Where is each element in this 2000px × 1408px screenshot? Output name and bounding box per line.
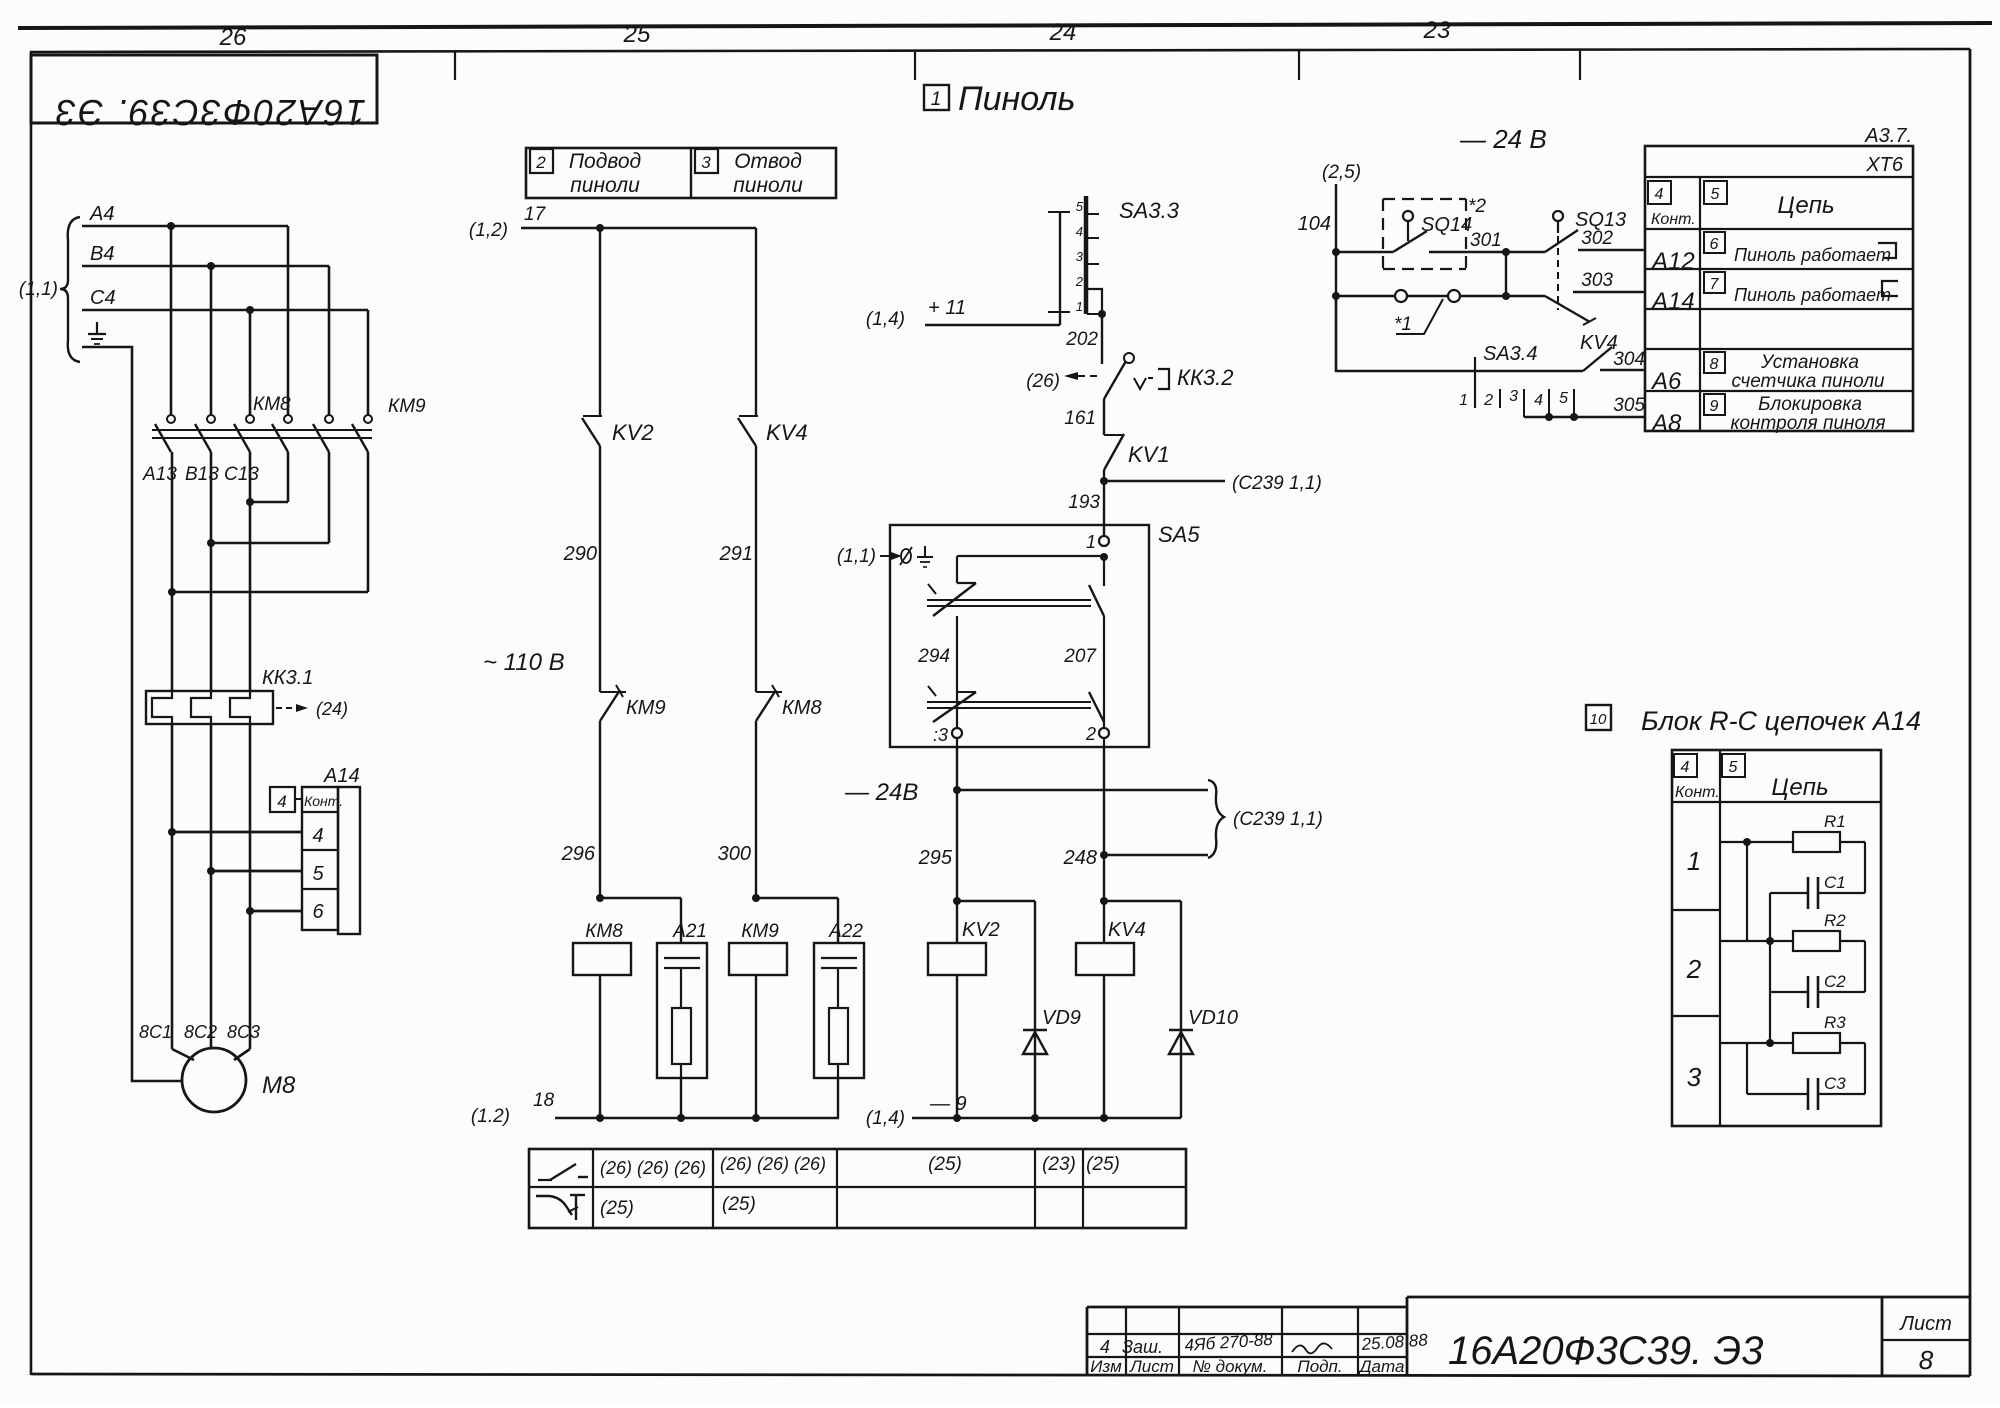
svg-text:2: 2 xyxy=(1075,274,1084,289)
svg-text:193: 193 xyxy=(1068,492,1100,513)
svg-text:(1.2): (1.2) xyxy=(471,1106,510,1127)
svg-text:24: 24 xyxy=(1049,19,1077,46)
svg-text:В4: В4 xyxy=(90,243,114,265)
svg-text:Блок R-С цепочек А14: Блок R-С цепочек А14 xyxy=(1641,706,1921,736)
svg-text:~ 110 В: ~ 110 В xyxy=(483,649,565,676)
svg-text:SА3.4: SА3.4 xyxy=(1483,343,1537,365)
svg-text:23: 23 xyxy=(1423,17,1451,44)
svg-text:4: 4 xyxy=(1534,392,1543,409)
svg-text:(26) (26) (26): (26) (26) (26) xyxy=(600,1158,706,1178)
svg-text:300: 300 xyxy=(718,843,751,865)
svg-text:КМ8: КМ8 xyxy=(253,394,291,415)
svg-text:КМ9: КМ9 xyxy=(626,697,666,719)
svg-text::3: :3 xyxy=(933,725,948,745)
svg-text:*1: *1 xyxy=(1394,314,1412,335)
svg-text:С4: С4 xyxy=(90,287,116,309)
svg-text:8С2: 8С2 xyxy=(184,1022,217,1042)
svg-text:8: 8 xyxy=(1919,1345,1934,1375)
svg-text:4: 4 xyxy=(1655,186,1664,203)
svg-text:КМ9: КМ9 xyxy=(388,396,426,417)
svg-text:Цепь: Цепь xyxy=(1777,192,1834,219)
svg-text:207: 207 xyxy=(1063,646,1097,667)
svg-text:(1,2): (1,2) xyxy=(469,220,508,241)
svg-text:А12: А12 xyxy=(1650,248,1695,275)
svg-text:*2: *2 xyxy=(1468,196,1486,217)
svg-text:17: 17 xyxy=(524,204,547,225)
svg-text:4: 4 xyxy=(1100,1337,1110,1357)
svg-text:304: 304 xyxy=(1613,349,1645,370)
svg-text:Подвод: Подвод xyxy=(569,150,641,173)
svg-text:КК3.1: КК3.1 xyxy=(262,667,313,689)
svg-text:296: 296 xyxy=(561,843,596,865)
svg-text:Конт.: Конт. xyxy=(1651,211,1696,228)
svg-text:1: 1 xyxy=(1086,532,1096,552)
svg-text:(25): (25) xyxy=(600,1198,634,1219)
svg-text:2: 2 xyxy=(1686,954,1702,984)
svg-text:(26) (26) (26): (26) (26) (26) xyxy=(720,1154,826,1174)
svg-text:291: 291 xyxy=(719,543,753,565)
svg-text:А13: А13 xyxy=(142,464,177,485)
svg-text:(26): (26) xyxy=(1026,371,1060,392)
svg-text:ХТ6: ХТ6 xyxy=(1865,154,1904,176)
svg-text:1: 1 xyxy=(1687,846,1701,876)
svg-text:8С3: 8С3 xyxy=(227,1022,260,1042)
svg-text:1: 1 xyxy=(931,89,942,110)
svg-text:КК3.2: КК3.2 xyxy=(1177,365,1234,390)
svg-text:В13: В13 xyxy=(185,464,219,485)
svg-text:А22: А22 xyxy=(828,921,863,942)
svg-text:(1,4): (1,4) xyxy=(866,309,905,330)
svg-text:Заш.: Заш. xyxy=(1122,1337,1163,1357)
svg-text:R3: R3 xyxy=(1824,1013,1846,1032)
svg-text:№ докум.: № докум. xyxy=(1193,1357,1268,1376)
svg-text:10: 10 xyxy=(1590,711,1607,728)
svg-text:7: 7 xyxy=(1710,276,1720,293)
svg-text:(1,1): (1,1) xyxy=(837,546,876,567)
svg-text:Пиноль: Пиноль xyxy=(958,80,1075,118)
svg-text:— 24В: — 24В xyxy=(844,779,918,806)
svg-text:Цепь: Цепь xyxy=(1771,774,1828,801)
svg-text:Дата: Дата xyxy=(1358,1357,1405,1376)
svg-text:4: 4 xyxy=(312,825,323,847)
svg-text:счетчика пиноли: счетчика пиноли xyxy=(1731,371,1884,392)
svg-text:(1,1): (1,1) xyxy=(19,279,58,300)
svg-text:А8: А8 xyxy=(1650,410,1682,437)
svg-text:6: 6 xyxy=(1710,236,1719,253)
svg-text:VD9: VD9 xyxy=(1042,1007,1081,1029)
svg-text:А14: А14 xyxy=(323,765,360,787)
svg-text:(1,4): (1,4) xyxy=(866,1108,905,1129)
svg-text:16А20Ф3С39. Э3: 16А20Ф3С39. Э3 xyxy=(54,92,366,133)
svg-text:6: 6 xyxy=(312,901,324,923)
svg-text:3: 3 xyxy=(1076,249,1084,264)
svg-text:4: 4 xyxy=(1681,759,1690,776)
svg-text:VD10: VD10 xyxy=(1188,1007,1238,1029)
svg-text:С1: С1 xyxy=(1824,873,1846,892)
svg-text:5: 5 xyxy=(1559,390,1568,407)
svg-text:(С239 1,1): (С239 1,1) xyxy=(1232,473,1322,494)
svg-text:302: 302 xyxy=(1581,228,1613,249)
svg-text:2: 2 xyxy=(1483,392,1493,409)
svg-text:(25): (25) xyxy=(1086,1154,1120,1175)
svg-text:— 9: — 9 xyxy=(929,1093,967,1115)
svg-text:А14: А14 xyxy=(1650,288,1695,315)
svg-text:8С1: 8С1 xyxy=(139,1022,172,1042)
svg-text:5: 5 xyxy=(1711,186,1720,203)
svg-text:(2,5): (2,5) xyxy=(1322,162,1361,183)
svg-text:2: 2 xyxy=(1085,724,1096,744)
svg-text:(25): (25) xyxy=(722,1194,756,1215)
svg-text:А21: А21 xyxy=(672,921,707,942)
svg-text:KV4: KV4 xyxy=(766,420,808,445)
svg-text:26: 26 xyxy=(219,24,247,51)
svg-text:SА5: SА5 xyxy=(1158,522,1200,547)
svg-text:(25): (25) xyxy=(928,1154,962,1175)
svg-text:Пиноль работает: Пиноль работает xyxy=(1734,285,1891,305)
svg-text:KV4: KV4 xyxy=(1108,919,1146,941)
svg-text:KV2: KV2 xyxy=(612,420,654,445)
svg-text:пиноли: пиноли xyxy=(733,174,803,197)
svg-text:4: 4 xyxy=(277,792,286,811)
svg-text:Конт.: Конт. xyxy=(1675,784,1720,801)
svg-text:SQ14: SQ14 xyxy=(1421,214,1472,236)
svg-text:(23): (23) xyxy=(1042,1154,1076,1175)
svg-text:25: 25 xyxy=(623,21,651,48)
svg-text:Лист: Лист xyxy=(1898,1313,1952,1335)
svg-text:5: 5 xyxy=(1729,759,1738,776)
svg-text:КМ8: КМ8 xyxy=(782,697,822,719)
svg-text:248: 248 xyxy=(1063,847,1097,869)
svg-text:18: 18 xyxy=(533,1090,555,1111)
svg-text:R2: R2 xyxy=(1824,911,1846,930)
svg-text:(С239 1,1): (С239 1,1) xyxy=(1233,809,1323,830)
svg-text:С13: С13 xyxy=(224,464,259,485)
svg-text:KV4: KV4 xyxy=(1580,332,1618,354)
svg-text:295: 295 xyxy=(918,847,953,869)
svg-text:А4: А4 xyxy=(89,203,114,225)
svg-text:202: 202 xyxy=(1065,329,1098,350)
svg-text:SА3.3: SА3.3 xyxy=(1119,198,1180,223)
svg-text:3: 3 xyxy=(1687,1062,1702,1092)
svg-text:2: 2 xyxy=(535,153,546,172)
svg-text:КМ8: КМ8 xyxy=(585,921,623,942)
svg-text:М8: М8 xyxy=(262,1072,296,1099)
svg-text:Лист: Лист xyxy=(1129,1357,1174,1376)
svg-text:Изм: Изм xyxy=(1090,1357,1122,1376)
svg-text:305: 305 xyxy=(1613,395,1645,416)
svg-text:А3.7.: А3.7. xyxy=(1864,125,1912,147)
svg-text:Подп.: Подп. xyxy=(1297,1357,1342,1376)
svg-text:Отвод: Отвод xyxy=(734,150,802,173)
svg-text:KV2: KV2 xyxy=(962,919,1000,941)
svg-text:R1: R1 xyxy=(1824,812,1846,831)
svg-text:1: 1 xyxy=(1459,392,1468,409)
svg-text:4: 4 xyxy=(1076,224,1083,239)
svg-text:161: 161 xyxy=(1064,408,1096,429)
svg-text:КМ9: КМ9 xyxy=(741,921,779,942)
svg-text:1: 1 xyxy=(1076,299,1083,314)
svg-text:— 24 В: — 24 В xyxy=(1459,124,1547,154)
svg-text:+ 11: + 11 xyxy=(928,297,966,319)
svg-text:Блокировка: Блокировка xyxy=(1758,394,1862,415)
svg-text:104: 104 xyxy=(1298,213,1331,235)
svg-text:3: 3 xyxy=(701,153,711,172)
svg-text:С2: С2 xyxy=(1824,972,1846,991)
svg-text:5: 5 xyxy=(312,863,324,885)
svg-text:8: 8 xyxy=(1710,356,1719,373)
svg-text:294: 294 xyxy=(917,646,950,667)
svg-text:5: 5 xyxy=(1076,199,1084,214)
svg-text:16А20Ф3С39. Э3: 16А20Ф3С39. Э3 xyxy=(1448,1329,1763,1373)
svg-text:С3: С3 xyxy=(1824,1074,1846,1093)
svg-text:9: 9 xyxy=(1710,398,1719,415)
svg-text:Установка: Установка xyxy=(1760,352,1859,373)
svg-text:KV1: KV1 xyxy=(1128,442,1170,467)
svg-text:(24): (24) xyxy=(316,699,348,719)
svg-text:пиноли: пиноли xyxy=(570,174,640,197)
svg-text:301: 301 xyxy=(1470,230,1502,251)
svg-text:А6: А6 xyxy=(1650,368,1682,395)
svg-text:контроля пиноля: контроля пиноля xyxy=(1731,413,1886,434)
svg-text:3: 3 xyxy=(1509,388,1518,405)
svg-text:Конт.: Конт. xyxy=(304,793,343,809)
svg-text:Пиноль работает: Пиноль работает xyxy=(1734,245,1891,265)
svg-text:290: 290 xyxy=(563,543,597,565)
svg-text:303: 303 xyxy=(1581,270,1613,291)
